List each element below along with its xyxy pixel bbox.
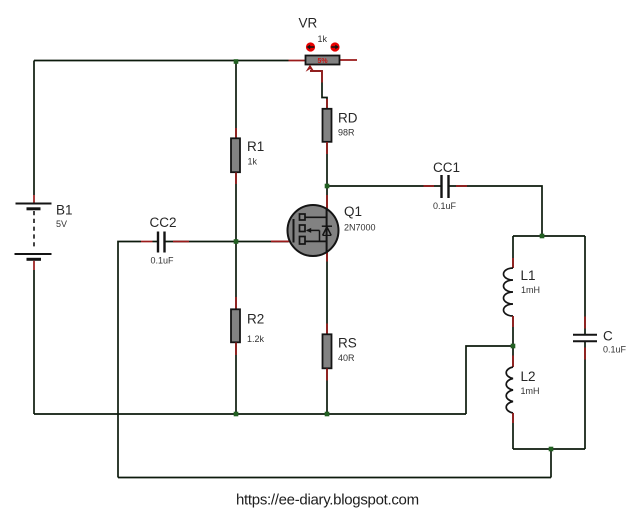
svg-text:VR: VR [299,16,318,31]
wire tap riser to L1/L2 junction [466,346,513,414]
resistor RS [323,324,332,381]
wire CC2 left vertical [118,242,141,478]
wire tank top [513,235,585,237]
svg-text:RD: RD [338,111,358,126]
VR adjust button right [330,42,339,51]
svg-text:5V: 5V [56,219,67,229]
resistor R2 [231,297,240,355]
wire drain to CC1 and down to tank [327,185,441,187]
wire source to RS to rail A [326,252,328,414]
wire tank bottom [513,448,585,450]
svg-text:Q1: Q1 [344,204,362,219]
resistor RD [310,71,332,154]
wire C branch upper [584,236,586,334]
inductor L1 [504,258,514,327]
junction node L1/L2 tap [511,344,516,349]
wire pot wiper to RD [310,71,327,109]
svg-text:5%: 5% [317,58,328,65]
resistor R1 [231,128,240,184]
svg-text:R2: R2 [247,312,264,327]
svg-text:0.1uF: 0.1uF [603,345,627,355]
wire L1 bottom segment [512,316,514,346]
capacitor CC1 [424,175,468,198]
svg-text:2N7000: 2N7000 [344,223,376,233]
svg-text:40R: 40R [338,353,355,363]
junction node top rail / R1 [234,59,239,64]
wire rail A (bottom feedback rail) [34,413,466,415]
wire C branch lower [584,342,586,449]
svg-text:B1: B1 [56,203,73,218]
wire CC2 to gate [153,241,158,243]
battery B1 [15,195,52,270]
capacitor C [573,317,597,360]
potentiometer VR [289,56,358,72]
wire left rail (battery top side) [33,61,35,196]
svg-text:CC1: CC1 [433,160,460,175]
wire L2 bottom segment [512,413,514,449]
wire L2 top segment [512,346,514,367]
svg-text:RS: RS [338,336,357,351]
wire R2 branch vertical [235,242,237,415]
junction node gate / R1 / R2 / CC2 [234,239,239,244]
svg-text:1k: 1k [248,157,258,167]
wire CC1 right to tank [450,186,543,236]
svg-text:L2: L2 [521,369,536,384]
svg-text:1mH: 1mH [521,386,540,396]
wire top rail [34,60,289,62]
junction node tank bottom drop [549,447,554,452]
svg-text:https://ee-diary.blogspot.com: https://ee-diary.blogspot.com [236,492,419,509]
wire rail B (lower rail) [118,477,551,479]
svg-text:L1: L1 [521,268,536,283]
svg-text:1mH: 1mH [521,285,540,295]
junction node RS / rail A [325,412,330,417]
wire R1 branch vertical [235,61,237,242]
junction node tank top / CC1 [540,234,545,239]
capacitor CC2 [141,232,189,253]
wire L1 top segment [512,236,514,268]
svg-text:1k: 1k [318,34,328,44]
wire RD to drain junction [326,142,328,209]
junction node R2 / rail A [234,412,239,417]
junction node drain / CC1 [325,184,330,189]
svg-text:R1: R1 [247,139,264,154]
svg-text:C: C [603,329,613,344]
mosfet Q1 [271,195,339,262]
wire CC2 right to gate [166,241,289,243]
inductor L2 [506,356,513,424]
wire tank bottom drop [550,449,552,478]
svg-text:0.1uF: 0.1uF [151,256,175,266]
VR adjust button left [306,42,315,51]
svg-text:0.1uF: 0.1uF [433,201,457,211]
wire battery bottom to rail A [33,270,35,414]
svg-text:98R: 98R [338,128,355,138]
svg-text:CC2: CC2 [150,215,177,230]
svg-text:1.2k: 1.2k [247,334,265,344]
